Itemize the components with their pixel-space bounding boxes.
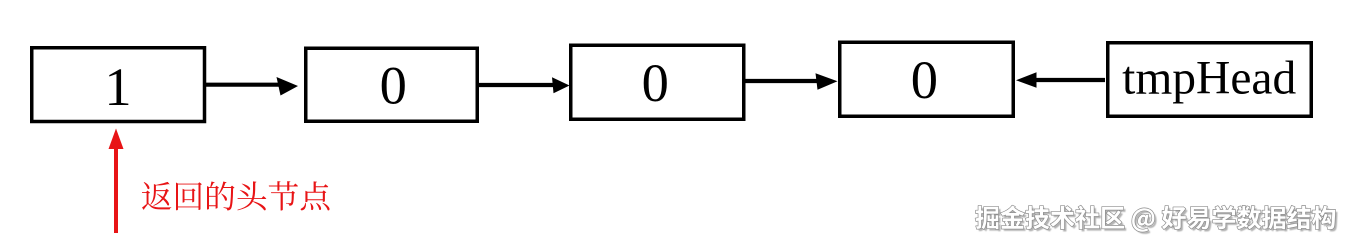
watermark 掘金技术社区 @ 好易学数据结构 <box>976 206 1338 234</box>
svg-text:0: 0 <box>380 54 407 115</box>
node box 2 <box>306 48 478 121</box>
red up arrow to box 1 <box>109 129 124 234</box>
node box 3 <box>571 45 744 119</box>
node box tmpHead <box>1108 43 1312 117</box>
arrow tmpHead to box4 (leftward) <box>1016 72 1105 88</box>
svg-text:1: 1 <box>104 56 131 117</box>
red label 返回的头节点 <box>142 181 330 210</box>
arrow box2 to box3 <box>477 77 570 93</box>
svg-text:0: 0 <box>642 52 669 113</box>
svg-text:tmpHead: tmpHead <box>1122 53 1296 105</box>
node box 1 <box>32 48 205 122</box>
svg-text:0: 0 <box>911 49 938 110</box>
arrow box3 to box4 <box>744 73 838 90</box>
arrow box1 to box2 <box>205 77 298 96</box>
node box 4 <box>840 42 1014 116</box>
